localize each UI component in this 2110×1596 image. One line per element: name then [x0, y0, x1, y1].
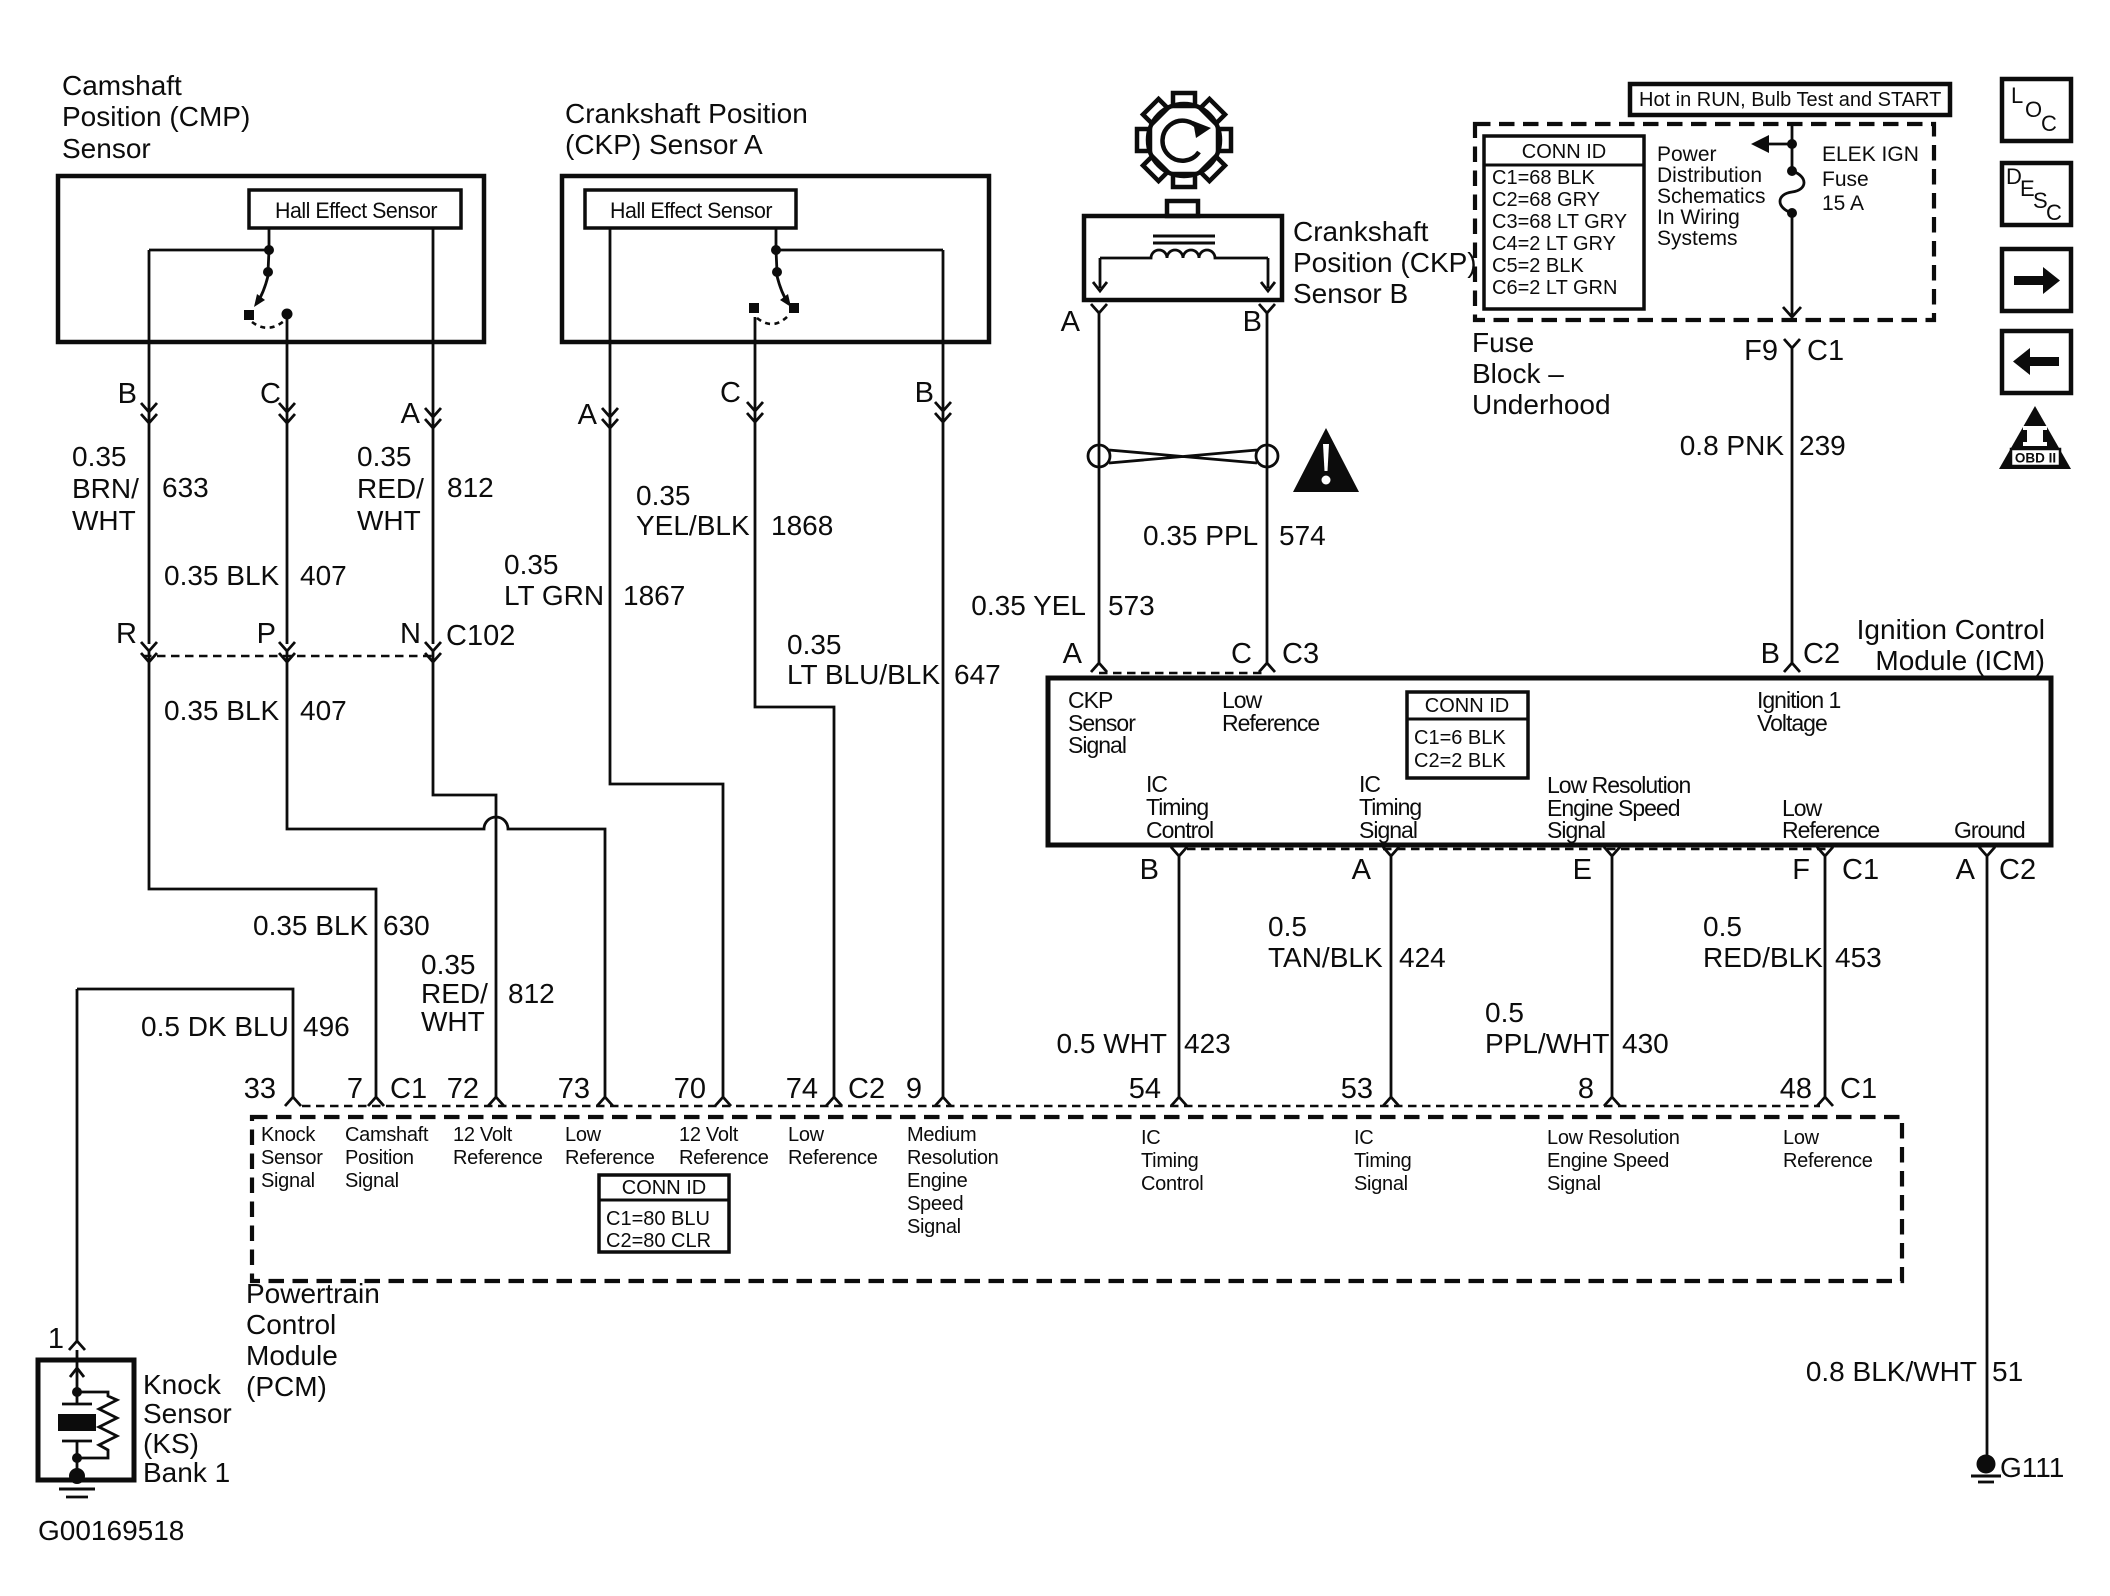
CMP switch arm with arrow: [257, 276, 268, 303]
svg-text:Resolution: Resolution: [907, 1147, 999, 1169]
svg-text:573: 573: [1108, 590, 1155, 621]
svg-text:CONN ID: CONN ID: [1425, 695, 1509, 717]
ICM label Low Reference: [1222, 687, 1319, 736]
ICM label Low Resolution Engine Speed Signal: [1547, 772, 1690, 843]
ICM pin A fork (bottom): [1383, 847, 1399, 1097]
wire CMP pin B: [148, 250, 151, 644]
svg-text:0.5: 0.5: [1485, 997, 1524, 1028]
svg-text:Hot in RUN, Bulb Test and STAR: Hot in RUN, Bulb Test and START: [1639, 89, 1941, 111]
svg-text:N: N: [400, 618, 421, 650]
OBD II icon: [1999, 406, 2071, 469]
svg-text:0.35: 0.35: [72, 441, 127, 472]
CMP switch travel dashed arc: [252, 321, 284, 328]
wire CKP A pin C: [755, 317, 834, 1097]
PCM label Knock Sensor Signal: [261, 1124, 323, 1192]
svg-text:Sensor B: Sensor B: [1293, 278, 1408, 309]
svg-text:1868: 1868: [771, 510, 833, 541]
CONN ID table (ICM): [1407, 692, 1528, 778]
wire fuse output: [1791, 213, 1794, 315]
svg-text:496: 496: [303, 1011, 350, 1042]
svg-text:Control: Control: [246, 1309, 336, 1340]
PCM label Low Reference (1): [565, 1124, 655, 1169]
svg-text:C: C: [2041, 111, 2057, 136]
svg-text:Position (CMP): Position (CMP): [62, 101, 250, 132]
svg-text:C2=68 GRY: C2=68 GRY: [1492, 189, 1600, 211]
CMP sensor box: [58, 176, 484, 342]
Fuse Block - Underhood label: [1472, 327, 1611, 420]
PCM pin 48 fork: [1817, 1097, 1833, 1106]
svg-text:74: 74: [786, 1073, 818, 1105]
svg-text:0.35: 0.35: [504, 549, 559, 580]
svg-text:C1: C1: [1807, 335, 1844, 367]
svg-text:0.35 PPL: 0.35 PPL: [1143, 520, 1258, 551]
svg-text:Camshaft: Camshaft: [62, 70, 182, 101]
svg-text:Timing: Timing: [1354, 1150, 1411, 1172]
svg-text:424: 424: [1399, 942, 1446, 973]
label 0.35 RED/WHT (upper): [357, 441, 424, 536]
CMP switch open contact (square): [244, 310, 254, 320]
svg-text:Hall Effect Sensor: Hall Effect Sensor: [610, 198, 772, 223]
Knock Sensor (KS) box: [38, 1360, 134, 1480]
Hall Effect Sensor box (CKP A): [585, 190, 796, 228]
svg-text:C6=2 LT GRN: C6=2 LT GRN: [1492, 277, 1617, 299]
svg-text:C1=68 BLK: C1=68 BLK: [1492, 167, 1596, 189]
svg-text:Engine Speed: Engine Speed: [1547, 1150, 1669, 1172]
ICM pin E fork (bottom): [1604, 847, 1620, 1097]
svg-text:(CKP) Sensor A: (CKP) Sensor A: [565, 129, 763, 160]
twisted pair symbol: [1088, 445, 1278, 467]
node: KS top junction: [72, 1387, 82, 1397]
svg-text:C: C: [1231, 638, 1252, 670]
wire CKP B pin B (0.35 PPL 574): [1266, 313, 1269, 655]
svg-text:A: A: [1061, 306, 1081, 338]
svg-text:Ground: Ground: [1954, 817, 2025, 843]
pin B chevrons: [141, 403, 157, 423]
ICM label IC Timing Signal: [1359, 771, 1421, 843]
svg-text:WHT: WHT: [357, 505, 421, 536]
svg-text:C1=80 BLU: C1=80 BLU: [606, 1208, 710, 1230]
svg-text:R: R: [116, 618, 137, 650]
svg-text:Position: Position: [345, 1147, 414, 1169]
wire knock sensor to PCM pin 33: [77, 989, 293, 1341]
svg-text:0.35 BLK: 0.35 BLK: [253, 910, 369, 941]
svg-text:WHT: WHT: [421, 1006, 485, 1037]
svg-text:C4=2 LT GRY: C4=2 LT GRY: [1492, 233, 1616, 255]
svg-text:Crankshaft: Crankshaft: [1293, 216, 1429, 247]
svg-text:CONN ID: CONN ID: [622, 1177, 706, 1199]
svg-text:Powertrain: Powertrain: [246, 1278, 380, 1309]
CKP A switch travel dashed arc: [757, 316, 788, 324]
Crankshaft Position (CKP) Sensor B title: [1293, 216, 1477, 309]
svg-text:PPL/WHT: PPL/WHT: [1485, 1028, 1609, 1059]
wire CKP A pin B: [942, 250, 945, 1097]
CKP A switch arm with arrow: [777, 276, 788, 303]
pin A chevrons: [425, 408, 441, 428]
ICM pin A/C2 ground fork: [1979, 847, 1995, 1455]
power feed wire: [1791, 124, 1794, 171]
label 0.35 YEL/BLK: [636, 480, 750, 541]
svg-text:E: E: [1573, 854, 1592, 886]
svg-text:Engine: Engine: [907, 1170, 968, 1192]
warning triangle: [1293, 428, 1359, 492]
svg-text:Sensor: Sensor: [143, 1398, 232, 1429]
knock sensor pin 1 fork: [69, 1341, 85, 1350]
svg-text:LT BLU/BLK: LT BLU/BLK: [787, 659, 940, 690]
svg-text:Signal: Signal: [1547, 1173, 1601, 1195]
svg-text:15 A: 15 A: [1822, 192, 1864, 215]
node: KS bottom junction: [72, 1453, 82, 1463]
svg-text:812: 812: [508, 978, 555, 1009]
svg-text:F9: F9: [1744, 335, 1778, 367]
svg-text:C: C: [2046, 200, 2062, 225]
svg-text:C2: C2: [1803, 638, 1840, 670]
wire CMP pin A: [432, 228, 435, 644]
svg-text:72: 72: [447, 1073, 479, 1105]
CKP B mounting tab: [1167, 201, 1198, 216]
PCM pin 74 fork: [826, 1097, 842, 1106]
CKP B pin A fork: [1091, 304, 1107, 313]
svg-text:C2: C2: [848, 1073, 885, 1105]
svg-text:453: 453: [1835, 942, 1882, 973]
svg-text:812: 812: [447, 472, 494, 503]
svg-text:(KS): (KS): [143, 1428, 199, 1459]
connector C102 pin R chevrons: [141, 642, 157, 662]
connector F9/C1 fork: [1784, 339, 1800, 352]
svg-text:Module (ICM): Module (ICM): [1875, 645, 2045, 676]
svg-text:0.5: 0.5: [1268, 911, 1307, 942]
node: CMP switch junction: [264, 245, 274, 255]
ICM pin C fork (top): [1259, 655, 1275, 672]
PCM connector dashed line: [302, 1105, 1820, 1107]
reluctor gear icon: [1137, 93, 1231, 187]
svg-text:Underhood: Underhood: [1472, 389, 1611, 420]
wire 0.8 PNK 239: [1791, 352, 1794, 663]
PCM label Low Reference (right): [1783, 1127, 1873, 1172]
svg-text:Signal: Signal: [907, 1216, 961, 1238]
svg-text:8: 8: [1578, 1073, 1594, 1105]
svg-text:Reference: Reference: [1783, 1150, 1873, 1172]
pin B chevrons (CKP A): [935, 402, 951, 422]
svg-text:OBD II: OBD II: [2015, 451, 2056, 466]
svg-text:C: C: [260, 378, 281, 410]
svg-text:RED/BLK: RED/BLK: [1703, 942, 1823, 973]
svg-text:647: 647: [954, 659, 1001, 690]
svg-text:Reference: Reference: [788, 1147, 878, 1169]
node: CMP switch pivot: [263, 267, 273, 277]
svg-text:B: B: [1243, 306, 1262, 338]
svg-text:YEL/BLK: YEL/BLK: [636, 510, 750, 541]
svg-text:Position (CKP): Position (CKP): [1293, 247, 1477, 278]
svg-text:70: 70: [674, 1073, 706, 1105]
label 0.35 BRN/WHT: [72, 441, 139, 536]
node: power branch: [1787, 139, 1797, 149]
KS ground: [59, 1458, 95, 1497]
svg-text:C5=2 BLK: C5=2 BLK: [1492, 255, 1584, 277]
svg-text:O: O: [2025, 97, 2042, 122]
connector C102 pin P chevrons: [279, 642, 295, 662]
label 0.5 PPL/WHT 430: [1485, 997, 1609, 1059]
label 0.5 RED/BLK 453: [1703, 911, 1823, 973]
svg-text:Low: Low: [565, 1124, 602, 1146]
wire P to PCM pin 73 (hops over N wire): [287, 651, 605, 1097]
svg-text:(PCM): (PCM): [246, 1371, 327, 1402]
svg-text:B: B: [1140, 854, 1159, 886]
svg-text:Control: Control: [1141, 1173, 1203, 1195]
svg-text:407: 407: [300, 560, 347, 591]
svg-text:IC: IC: [1354, 1127, 1373, 1149]
svg-text:Signal: Signal: [345, 1170, 399, 1192]
svg-text:0.35 BLK: 0.35 BLK: [164, 695, 280, 726]
branch arrow to power distribution: [1766, 143, 1792, 146]
svg-text:0.35: 0.35: [357, 441, 412, 472]
svg-text:C1: C1: [1840, 1073, 1877, 1105]
svg-text:Signal: Signal: [1354, 1173, 1408, 1195]
wire R to PCM pin 7: [149, 651, 376, 1097]
next-page arrow icon: [2002, 249, 2071, 311]
svg-text:G00169518: G00169518: [38, 1515, 184, 1546]
PCM label Medium Resolution Engine Speed Signal: [907, 1124, 999, 1238]
KS piezo capacitor element: [58, 1392, 96, 1458]
wire CMP pin C: [286, 316, 289, 644]
svg-text:C102: C102: [446, 620, 515, 652]
ICM pin B fork (bottom): [1171, 847, 1187, 1097]
PCM pin 8 fork: [1604, 1097, 1620, 1106]
wire CKP A pin A: [610, 228, 723, 1097]
Ignition Control Module (ICM) box: [1048, 678, 2051, 845]
Crankshaft Position (CKP) Sensor A title: [565, 98, 808, 160]
PCM label 12 Volt Reference (2): [679, 1124, 769, 1169]
CKP B core lines: [1153, 236, 1215, 243]
label 0.35 LT BLU/BLK: [787, 629, 940, 690]
Knock Sensor (KS) Bank 1 label: [143, 1369, 232, 1488]
svg-text:Distribution: Distribution: [1657, 164, 1762, 187]
svg-text:54: 54: [1129, 1073, 1161, 1105]
svg-text:ELEK IGN: ELEK IGN: [1822, 143, 1919, 166]
wire CKP B pin A (0.35 YEL 573): [1098, 313, 1101, 655]
svg-text:A: A: [401, 398, 421, 430]
label 0.35 LT GRN: [504, 549, 604, 611]
CKP sensor A box: [562, 176, 989, 342]
svg-text:C2=80 CLR: C2=80 CLR: [606, 1230, 711, 1252]
svg-text:Camshaft: Camshaft: [345, 1124, 429, 1146]
svg-text:C3=68 LT GRY: C3=68 LT GRY: [1492, 211, 1627, 233]
ELEK IGN fuse label: [1822, 143, 1919, 215]
ICM label CKP Sensor Signal: [1068, 687, 1136, 758]
svg-text:B: B: [915, 377, 934, 409]
svg-text:Bank 1: Bank 1: [143, 1457, 230, 1488]
svg-text:430: 430: [1622, 1028, 1669, 1059]
CKP B pickup coil: [1100, 250, 1268, 258]
svg-text:Sensor: Sensor: [62, 133, 151, 164]
svg-text:BRN/: BRN/: [72, 473, 139, 504]
svg-text:0.5: 0.5: [1703, 911, 1742, 942]
CKP A switch open contact (square): [749, 303, 759, 313]
CKP B left lead arrow: [1093, 258, 1107, 291]
svg-text:Power: Power: [1657, 143, 1717, 166]
CKP A switch common wire: [776, 228, 943, 272]
svg-text:Low: Low: [788, 1124, 825, 1146]
ICM connector C3 dashed line: [1099, 672, 1267, 674]
svg-text:Reference: Reference: [565, 1147, 655, 1169]
svg-text:0.5 WHT: 0.5 WHT: [1057, 1028, 1167, 1059]
svg-text:F: F: [1792, 854, 1810, 886]
svg-text:Signal: Signal: [261, 1170, 315, 1192]
CMP switch common wire: [149, 228, 269, 272]
svg-text:51: 51: [1992, 1356, 2023, 1387]
PCM pin 70 fork: [715, 1097, 731, 1106]
Powertrain Control Module (PCM) title: [246, 1278, 380, 1402]
svg-text:12 Volt: 12 Volt: [679, 1124, 739, 1146]
svg-text:A: A: [578, 399, 598, 431]
svg-text:Ignition Control: Ignition Control: [1857, 614, 2045, 645]
svg-text:A: A: [1956, 854, 1976, 886]
PCM label IC Timing Signal: [1354, 1127, 1411, 1195]
LOC icon: [2002, 79, 2071, 141]
svg-text:Reference: Reference: [679, 1147, 769, 1169]
svg-text:Knock: Knock: [143, 1369, 222, 1400]
svg-text:C2=2 BLK: C2=2 BLK: [1414, 750, 1506, 772]
svg-text:Voltage: Voltage: [1757, 710, 1827, 736]
svg-text:A: A: [1063, 638, 1083, 670]
node: CMP switch closed contact: [282, 309, 293, 320]
label 0.35 RED/WHT (lower): [421, 949, 488, 1037]
node: CKP A switch pivot: [772, 267, 782, 277]
pin A chevrons (CKP A): [602, 408, 618, 428]
svg-text:73: 73: [558, 1073, 590, 1105]
svg-text:RED/: RED/: [357, 473, 424, 504]
svg-text:423: 423: [1184, 1028, 1231, 1059]
svg-text:48: 48: [1780, 1073, 1812, 1105]
svg-text:C: C: [720, 377, 741, 409]
svg-text:P: P: [257, 618, 276, 650]
pin C chevrons (CKP A): [747, 402, 763, 422]
svg-text:Signal: Signal: [1359, 817, 1417, 843]
ICM label Ignition 1 Voltage: [1757, 687, 1841, 736]
DESC icon: [2002, 163, 2071, 225]
node: CKP A switch arm end: [789, 303, 799, 313]
svg-text:L: L: [2011, 83, 2023, 108]
svg-text:WHT: WHT: [72, 505, 136, 536]
svg-text:Fuse: Fuse: [1472, 327, 1534, 358]
svg-text:Hall Effect Sensor: Hall Effect Sensor: [275, 198, 437, 223]
svg-text:Low Resolution: Low Resolution: [1547, 1127, 1680, 1149]
svg-text:TAN/BLK: TAN/BLK: [1268, 942, 1383, 973]
PCM pin 33 fork: [285, 1097, 301, 1106]
svg-text:630: 630: [383, 910, 430, 941]
fuse ELEK IGN 15A: [1780, 166, 1804, 218]
svg-text:Module: Module: [246, 1340, 338, 1371]
PCM label Camshaft Position Signal: [345, 1124, 429, 1192]
PCM pin 73 fork: [597, 1097, 613, 1106]
svg-text:0.5 DK BLU: 0.5 DK BLU: [141, 1011, 289, 1042]
PCM dashed box: [252, 1117, 1902, 1281]
svg-text:407: 407: [300, 695, 347, 726]
Camshaft Position (CMP) Sensor title: [62, 70, 250, 164]
PCM pin 54 fork: [1171, 1097, 1187, 1106]
svg-text:12 Volt: 12 Volt: [453, 1124, 513, 1146]
svg-text:7: 7: [347, 1073, 363, 1105]
svg-text:LT GRN: LT GRN: [504, 580, 604, 611]
CKP B right lead arrow: [1261, 258, 1275, 291]
svg-text:Systems: Systems: [1657, 227, 1738, 250]
PCM pin 7 fork: [368, 1097, 384, 1106]
svg-text:RED/: RED/: [421, 978, 488, 1009]
ICM bottom connector dashed line: [1187, 848, 1832, 850]
Power Distribution note: [1657, 143, 1766, 250]
svg-text:Low: Low: [1783, 1127, 1820, 1149]
svg-text:Reference: Reference: [1222, 710, 1319, 736]
previous-page arrow icon: [2002, 331, 2071, 393]
Ignition Control Module (ICM) title: [1857, 614, 2045, 676]
PCM pin 72 fork: [488, 1097, 504, 1106]
ICM pin F fork (bottom): [1817, 847, 1833, 1097]
svg-text:Signal: Signal: [1068, 732, 1126, 758]
Hot in RUN, Bulb Test and START box: [1630, 84, 1950, 115]
svg-text:0.8 PNK: 0.8 PNK: [1680, 430, 1785, 461]
svg-text:In Wiring: In Wiring: [1657, 206, 1740, 229]
svg-text:A: A: [1352, 854, 1372, 886]
svg-text:Schematics: Schematics: [1657, 185, 1766, 208]
svg-text:Reference: Reference: [1782, 817, 1879, 843]
svg-text:Signal: Signal: [1547, 817, 1605, 843]
svg-text:C3: C3: [1282, 638, 1319, 670]
svg-text:0.35 BLK: 0.35 BLK: [164, 560, 280, 591]
node: CKP A switch junction: [771, 245, 781, 255]
PCM label Low Reference (2): [788, 1124, 878, 1169]
ICM label IC Timing Control: [1146, 771, 1213, 843]
svg-text:239: 239: [1799, 430, 1846, 461]
arrow out of fuse block: [1783, 307, 1801, 317]
connector C102 dashed line: [143, 655, 437, 657]
svg-text:Medium: Medium: [907, 1124, 976, 1146]
svg-text:0.35: 0.35: [421, 949, 476, 980]
svg-text:Speed: Speed: [907, 1193, 963, 1215]
svg-text:1867: 1867: [623, 580, 685, 611]
PCM label IC Timing Control: [1141, 1127, 1203, 1195]
ground G111: [1971, 1455, 2001, 1483]
ICM pin A fork (top): [1091, 655, 1107, 672]
svg-text:574: 574: [1279, 520, 1326, 551]
svg-text:C1: C1: [390, 1073, 427, 1105]
PCM pin 9 fork: [935, 1097, 951, 1106]
svg-text:0.8 BLK/WHT: 0.8 BLK/WHT: [1806, 1356, 1977, 1387]
svg-text:Reference: Reference: [453, 1147, 543, 1169]
PCM label 12 Volt Reference (1): [453, 1124, 543, 1169]
ICM label Low Reference (right): [1782, 795, 1879, 843]
svg-text:Control: Control: [1146, 817, 1213, 843]
svg-text:C1: C1: [1842, 854, 1879, 886]
CKP B pin B fork: [1259, 304, 1275, 313]
svg-text:B: B: [118, 378, 137, 410]
svg-text:1: 1: [48, 1323, 64, 1355]
svg-text:Timing: Timing: [1141, 1150, 1198, 1172]
KS shunt resistor: [77, 1392, 117, 1458]
svg-text:G111: G111: [2000, 1452, 2064, 1483]
connector C102 pin N chevrons: [425, 642, 441, 662]
svg-text:0.35 YEL: 0.35 YEL: [971, 590, 1086, 621]
svg-text:C1=6 BLK: C1=6 BLK: [1414, 727, 1506, 749]
CONN ID table (PCM): [599, 1175, 729, 1252]
svg-text:0.35: 0.35: [787, 629, 842, 660]
Hall Effect Sensor box (CMP): [249, 190, 461, 228]
svg-text:C2: C2: [1999, 854, 2036, 886]
svg-text:Sensor: Sensor: [261, 1147, 323, 1169]
CKP sensor B box: [1084, 216, 1282, 300]
svg-text:633: 633: [162, 472, 209, 503]
CONN ID table (fuse block): [1484, 136, 1644, 309]
KS internal up arrow: [70, 1368, 84, 1377]
svg-text:Knock: Knock: [261, 1124, 316, 1146]
